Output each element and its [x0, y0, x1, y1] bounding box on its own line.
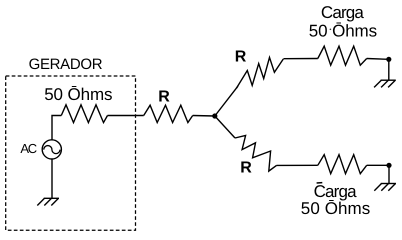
- svg-text:R: R: [235, 48, 247, 65]
- svg-text:50 Ōhms: 50 Ōhms: [44, 85, 112, 104]
- svg-text:GERADOR: GERADOR: [29, 56, 103, 73]
- svg-text:Carga: Carga: [321, 3, 365, 22]
- svg-text:AC: AC: [20, 141, 37, 156]
- svg-text:50 Ōhms: 50 Ōhms: [301, 199, 371, 218]
- svg-text:50 Ōhms: 50 Ōhms: [309, 21, 377, 40]
- svg-text:R: R: [158, 88, 170, 105]
- svg-text:R: R: [240, 160, 252, 177]
- svg-text:Carga: Carga: [314, 182, 358, 201]
